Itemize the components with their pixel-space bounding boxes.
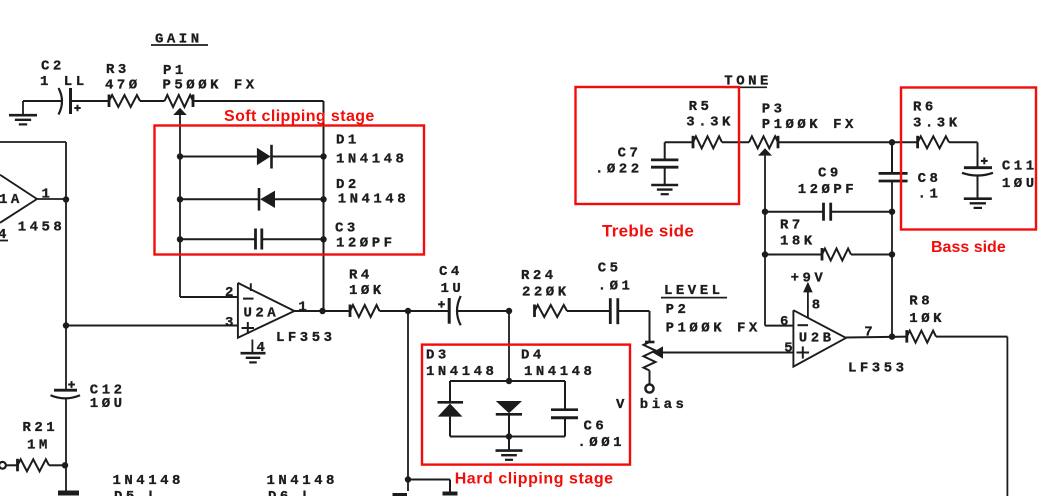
svg-text:12ØPF: 12ØPF (798, 182, 858, 198)
svg-text:LF353: LF353 (276, 330, 336, 346)
svg-text:1ØK: 1ØK (349, 283, 385, 299)
svg-text:1N4148: 1N4148 (336, 152, 407, 168)
svg-text:8: 8 (812, 298, 824, 314)
svg-text:1: 1 (42, 187, 54, 203)
svg-text:47Ø: 47Ø (105, 77, 141, 93)
svg-text:7: 7 (864, 325, 876, 341)
svg-text:.1: .1 (918, 186, 942, 202)
svg-text:2: 2 (225, 285, 237, 301)
svg-text:R21: R21 (23, 420, 59, 436)
svg-text:5: 5 (784, 340, 796, 356)
svg-text:R3: R3 (106, 62, 130, 78)
svg-text:P1ØØK FX: P1ØØK FX (666, 321, 761, 337)
svg-text:P5ØØK FX: P5ØØK FX (163, 78, 258, 94)
svg-text:D5: D5 (114, 489, 138, 496)
svg-text:.ØØ1: .ØØ1 (577, 435, 625, 451)
svg-text:D4: D4 (521, 348, 545, 364)
svg-text:C11: C11 (1002, 159, 1038, 175)
svg-text:6: 6 (780, 314, 792, 330)
svg-text:V bias: V bias (616, 397, 687, 413)
svg-text:1N4148: 1N4148 (113, 473, 184, 489)
svg-text:Hard clipping stage: Hard clipping stage (455, 471, 614, 488)
svg-text:22ØK: 22ØK (522, 284, 570, 300)
svg-text:12ØPF: 12ØPF (336, 236, 396, 252)
svg-text:C5: C5 (598, 260, 622, 276)
svg-text:1M: 1M (27, 437, 51, 453)
svg-text:D3: D3 (426, 348, 450, 364)
svg-text:18K: 18K (780, 234, 816, 250)
svg-text:R8: R8 (909, 294, 933, 310)
svg-text:1 LL: 1 LL (40, 74, 88, 90)
svg-text:R4: R4 (349, 268, 373, 284)
svg-text:P1ØØK FX: P1ØØK FX (762, 117, 857, 133)
svg-text:C3: C3 (335, 221, 359, 237)
svg-text:1458: 1458 (18, 219, 66, 235)
svg-text:D1: D1 (336, 133, 360, 149)
svg-text:Soft clipping stage: Soft clipping stage (224, 108, 375, 125)
svg-text:D6: D6 (268, 489, 292, 496)
svg-text:C8: C8 (918, 171, 942, 187)
svg-text:1N4148: 1N4148 (338, 192, 409, 208)
svg-text:.Ø1: .Ø1 (598, 279, 634, 295)
svg-text:C2: C2 (41, 59, 65, 75)
svg-text:1A: 1A (0, 192, 23, 208)
svg-text:U2B: U2B (799, 330, 835, 346)
svg-text:C6: C6 (584, 419, 608, 435)
svg-text:1N4148: 1N4148 (426, 364, 497, 380)
svg-text:1: 1 (298, 300, 310, 316)
svg-text:LF353: LF353 (848, 360, 908, 376)
svg-text:C9: C9 (818, 165, 842, 181)
svg-text:R6: R6 (913, 99, 937, 115)
svg-text:1ØK: 1ØK (909, 311, 945, 327)
svg-text:Bass side: Bass side (931, 239, 1006, 256)
svg-text:1N4148: 1N4148 (524, 364, 595, 380)
svg-text:R24: R24 (521, 268, 557, 284)
svg-text:1U: 1U (441, 281, 465, 297)
svg-text:.Ø22: .Ø22 (595, 161, 643, 177)
svg-text:C7: C7 (618, 146, 642, 162)
svg-text:1ØU: 1ØU (1002, 176, 1038, 192)
svg-text:Treble side: Treble side (602, 222, 694, 241)
svg-text:D2: D2 (336, 177, 360, 193)
svg-text:3: 3 (225, 315, 237, 331)
svg-text:P3: P3 (762, 101, 786, 117)
svg-text:3.3K: 3.3K (913, 116, 961, 132)
svg-text:1ØU: 1ØU (90, 396, 126, 412)
svg-text:P2: P2 (666, 302, 690, 318)
svg-text:1N4148: 1N4148 (267, 473, 338, 489)
svg-text:C4: C4 (439, 264, 463, 280)
svg-text:R5: R5 (689, 99, 713, 115)
svg-text:3.3K: 3.3K (686, 115, 734, 131)
svg-text:R7: R7 (780, 217, 804, 233)
svg-text:U2A: U2A (244, 305, 280, 321)
